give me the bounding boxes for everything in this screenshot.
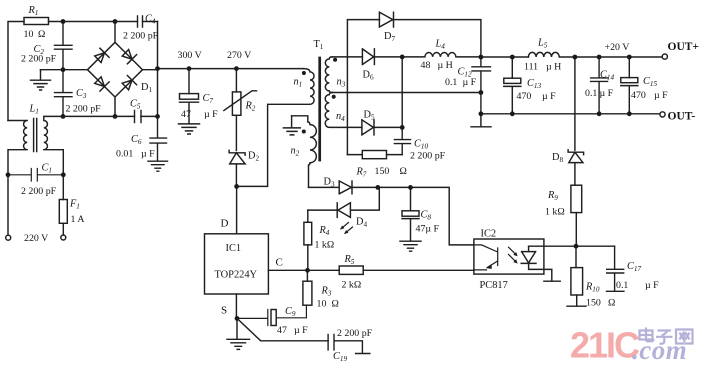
bridge rectifier D1 diamond (88, 22, 143, 117)
svg-text:C3: C3 (76, 88, 87, 100)
capacitor C1 (8, 169, 63, 182)
svg-text:2 200 pF: 2 200 pF (123, 31, 159, 42)
diode D5 (362, 120, 402, 135)
inductor L5 (528, 52, 662, 57)
svg-text:D8: D8 (552, 152, 563, 164)
resistor R7 (347, 154, 402, 156)
thermistor R2 (232, 92, 241, 115)
svg-text:L1: L1 (29, 104, 39, 116)
svg-text:48: 48 (421, 60, 431, 71)
terminal OUT+ (662, 54, 667, 59)
wire D8 feedback branch (574, 57, 576, 150)
svg-text:R9: R9 (547, 190, 558, 202)
resistor R3 (303, 281, 312, 305)
diode D7 (379, 12, 481, 57)
resistor R5 (339, 266, 363, 274)
svg-text:.com: .com (632, 335, 687, 365)
svg-text:470: 470 (631, 90, 646, 101)
svg-text:C14: C14 (600, 70, 614, 82)
svg-text:Ω: Ω (38, 29, 45, 40)
svg-text:2 200 pF: 2 200 pF (66, 104, 102, 115)
resistor R4 (304, 222, 312, 245)
capacitor C14 (591, 57, 608, 114)
svg-text:µ F: µ F (141, 149, 155, 160)
transformer T1 secondary n3 (325, 57, 332, 93)
resistor R9 (571, 185, 582, 212)
svg-text:L4: L4 (435, 39, 446, 51)
diode D4 (308, 187, 380, 217)
svg-text:10: 10 (24, 29, 34, 40)
inductor L1 right winding (44, 116, 64, 199)
svg-text:C15: C15 (643, 76, 657, 88)
svg-text:2 kΩ: 2 kΩ (342, 280, 362, 291)
svg-text:10: 10 (317, 299, 327, 310)
wire D2 junction to IC1 drain (236, 186, 238, 233)
wire feedback node (529, 245, 615, 247)
svg-text:470: 470 (517, 91, 532, 102)
fuse F1 (59, 200, 67, 224)
wire +20V output rail (481, 56, 529, 58)
svg-text:47: 47 (181, 109, 191, 120)
diode D6 (362, 49, 402, 65)
svg-text:Ω: Ω (332, 299, 339, 310)
svg-text:D6: D6 (363, 70, 374, 82)
capacitor C4 (138, 16, 143, 27)
svg-text:R7: R7 (356, 167, 367, 179)
svg-text:D2: D2 (248, 151, 259, 163)
zener diode D8 (568, 150, 584, 185)
svg-text:150: 150 (586, 298, 601, 309)
inductor L1 core (34, 119, 37, 152)
svg-text:T1: T1 (314, 39, 324, 51)
wire D5 D6 cathode tie (401, 57, 403, 128)
svg-text:C1: C1 (42, 163, 52, 175)
resistor R10 (575, 246, 577, 267)
svg-text:C6: C6 (131, 134, 142, 146)
transformer T1 bias winding n2 (292, 116, 317, 188)
wire IC1 C pin (268, 269, 339, 271)
svg-text:F1: F1 (69, 199, 80, 211)
wire right vertical 300V column (143, 22, 158, 117)
svg-text:C5: C5 (130, 99, 141, 111)
wire D3 node to C8 and IC2 (378, 187, 474, 245)
svg-text:21IC: 21IC (570, 325, 640, 366)
bridge diode top-right (122, 50, 136, 64)
terminal 220V right (61, 235, 66, 240)
resistor R1 (24, 18, 49, 25)
bridge diode bottom-left (95, 77, 109, 91)
svg-text:R5: R5 (344, 254, 355, 266)
ground at n2 (283, 116, 300, 135)
wire OUT- rail (481, 113, 660, 115)
wire bottom AC rail (63, 115, 158, 117)
transformer T1 core (318, 58, 321, 160)
svg-text:300 V: 300 V (178, 50, 203, 61)
optocoupler IC2 box (474, 239, 544, 274)
svg-text:IC1: IC1 (226, 243, 242, 254)
svg-text:0.1: 0.1 (616, 280, 628, 291)
svg-text:Ω: Ω (400, 166, 407, 177)
svg-text:C17: C17 (627, 261, 641, 273)
svg-text:µ H: µ H (546, 62, 561, 73)
capacitor C2 (55, 22, 73, 70)
op-amp IC1 TOP224Y box (205, 234, 269, 294)
ground under C6 (148, 161, 168, 171)
svg-text:OUT-: OUT- (668, 111, 696, 123)
svg-text:D4: D4 (356, 217, 367, 229)
svg-text:S: S (221, 305, 227, 317)
capacitor C13 electrolytic (504, 57, 521, 114)
svg-text:R10: R10 (585, 282, 600, 294)
chassis bar at IC2 LED cathode (544, 280, 560, 282)
wire D7 clamp rail (347, 20, 379, 155)
svg-text:PC817: PC817 (480, 280, 508, 291)
bridge diode top-left (95, 48, 109, 62)
svg-text:C7: C7 (203, 93, 214, 105)
svg-text:µ H: µ H (438, 60, 453, 71)
wire IC1 S pin (235, 294, 237, 318)
inductor L4 (402, 53, 481, 57)
svg-text:D3: D3 (324, 177, 335, 189)
wire mid-tap return rail (332, 92, 481, 94)
svg-text:C13: C13 (527, 78, 541, 90)
capacitor C12 (472, 57, 491, 114)
svg-text:n3: n3 (337, 77, 346, 89)
svg-text:IC2: IC2 (481, 229, 497, 240)
transformer T1 primary n1 (303, 69, 314, 105)
wire n1 bottom return (237, 104, 310, 186)
terminal OUT- (660, 112, 665, 117)
capacitor C9 electrolytic (237, 305, 306, 325)
svg-text:C8: C8 (421, 210, 432, 222)
svg-text:0.01: 0.01 (116, 149, 133, 160)
svg-text:R1: R1 (28, 5, 39, 17)
chassis bar under R10 (567, 305, 586, 307)
svg-text:47: 47 (277, 325, 287, 336)
svg-text:C19: C19 (333, 351, 347, 363)
svg-text:µ F: µ F (600, 88, 614, 99)
svg-text:C4: C4 (145, 14, 156, 26)
ground under C8 (400, 241, 421, 251)
diode D3 (309, 181, 378, 194)
capacitor C5 (135, 111, 142, 123)
svg-text:D5: D5 (364, 110, 375, 122)
IC2 phototransistor (474, 245, 498, 270)
svg-text:C9: C9 (285, 306, 296, 318)
svg-text:R2: R2 (245, 101, 256, 113)
svg-text:µ F: µ F (204, 109, 218, 120)
wire mid AC to bridge (41, 69, 88, 71)
ground under C7 (179, 124, 200, 134)
svg-text:D1: D1 (141, 82, 152, 94)
svg-text:270 V: 270 V (227, 50, 252, 61)
wire top AC rail (8, 22, 158, 121)
ground near C2 (31, 70, 51, 90)
svg-text:Ω: Ω (608, 298, 615, 309)
svg-text:0.1: 0.1 (445, 77, 457, 88)
svg-text:OUT+: OUT+ (668, 41, 699, 53)
svg-text:C10: C10 (414, 139, 428, 151)
svg-text:µ F: µ F (294, 325, 308, 336)
IC2 light arrows (509, 247, 516, 261)
svg-text:+20 V: +20 V (605, 42, 631, 53)
svg-text:µ F: µ F (542, 91, 556, 102)
svg-text:R4: R4 (319, 225, 330, 237)
capacitor C10 (394, 127, 410, 154)
capacitor C17 (607, 246, 624, 291)
wire n3 to D6 (332, 56, 362, 58)
capacitor C3 (55, 70, 73, 117)
svg-text:220 V: 220 V (24, 233, 49, 244)
ground under S pin (227, 318, 250, 349)
arrows at R4 (341, 223, 353, 234)
svg-text:n1: n1 (294, 77, 303, 89)
svg-text:n4: n4 (336, 111, 345, 123)
wire 300V rail (158, 69, 304, 70)
IC2 LED (521, 246, 552, 281)
chassis bar under C12 (471, 114, 491, 127)
svg-text:C: C (276, 257, 283, 269)
svg-text:2 200 pF: 2 200 pF (337, 328, 373, 339)
svg-text:1 kΩ: 1 kΩ (315, 240, 335, 251)
svg-text:D: D (221, 218, 229, 230)
svg-text:R3: R3 (321, 286, 332, 298)
svg-text:1 A: 1 A (71, 214, 86, 225)
svg-text:µ F: µ F (654, 90, 668, 101)
svg-text:µ F: µ F (463, 77, 477, 88)
svg-text:150: 150 (375, 166, 390, 177)
svg-text:1 kΩ: 1 kΩ (545, 207, 565, 218)
svg-text:D7: D7 (384, 31, 395, 43)
svg-text:2 200 pF: 2 200 pF (410, 151, 446, 162)
capacitor C8 electrolytic (402, 187, 419, 240)
chassis bar under C11 (356, 353, 370, 355)
svg-text:n2: n2 (291, 146, 300, 158)
chassis bar under C17 (607, 290, 624, 292)
watermark dianziwang glyphs (640, 328, 693, 344)
zener diode D2 (229, 150, 245, 186)
capacitor C7 electrolytic (180, 69, 199, 124)
svg-text:0.1: 0.1 (585, 88, 597, 99)
terminal 220V left (6, 235, 11, 240)
svg-text:L5: L5 (537, 38, 548, 50)
svg-text:47µ F: 47µ F (416, 224, 440, 235)
wire S to C11 (237, 318, 328, 340)
transformer T1 secondary n4 (325, 93, 362, 128)
svg-text:2 200 pF: 2 200 pF (21, 186, 57, 197)
svg-text:111: 111 (524, 62, 538, 73)
inductor L1 common-mode choke left winding (8, 121, 27, 236)
capacitor C15 electrolytic (621, 57, 638, 114)
svg-text:TOP224Y: TOP224Y (215, 270, 258, 281)
svg-text:2 200 pF: 2 200 pF (21, 54, 57, 65)
capacitor C6 (150, 116, 167, 160)
capacitor C11 (328, 334, 362, 353)
bridge diode bottom-right (122, 76, 136, 90)
svg-text:µ F: µ F (645, 280, 659, 291)
